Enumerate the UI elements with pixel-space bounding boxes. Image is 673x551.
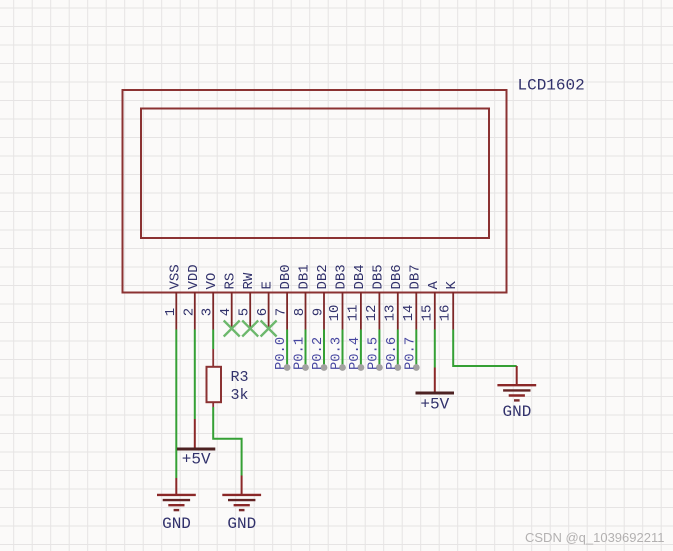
LCD1602 display window inner rectangle	[141, 109, 489, 239]
svg-text:+5V: +5V	[182, 451, 211, 469]
wire DB1 pin8	[305, 330, 307, 368]
pin 8 DB1 stub	[305, 292, 307, 330]
node dot P0.6	[394, 364, 401, 371]
ground symbol (VSS)	[157, 495, 196, 510]
svg-text:CSDN @q_1039692211: CSDN @q_1039692211	[525, 530, 664, 545]
resistor R3 body	[207, 367, 222, 402]
svg-text:DB6: DB6	[389, 264, 405, 289]
wire K pin16 to GND	[453, 330, 517, 367]
LCD1602 component body outer rectangle	[123, 90, 507, 293]
svg-text:P0.6: P0.6	[385, 337, 400, 370]
no-connect X on pin 6	[261, 321, 277, 337]
svg-text:9: 9	[311, 308, 327, 316]
svg-text:3: 3	[200, 308, 216, 316]
pin 2 VDD stub	[194, 292, 196, 330]
svg-text:15: 15	[419, 305, 435, 322]
no-connect X on pin 4	[224, 321, 240, 337]
svg-text:4: 4	[218, 308, 234, 316]
svg-text:LCD1602: LCD1602	[518, 77, 585, 95]
no-connect X on pin 5	[242, 321, 258, 337]
svg-text:P0.5: P0.5	[366, 337, 381, 370]
pin 7 DB0 stub	[286, 292, 288, 330]
pin 15 A stub	[434, 292, 436, 330]
pin 14 DB7 stub	[415, 292, 417, 330]
svg-text:P0.4: P0.4	[348, 337, 363, 370]
node dot P0.1	[302, 364, 309, 371]
wire A pin15 down	[434, 330, 436, 368]
svg-text:DB4: DB4	[352, 264, 368, 289]
svg-text:GND: GND	[502, 403, 531, 421]
resistor R3 bottom lead	[212, 402, 214, 407]
svg-text:E: E	[260, 281, 276, 289]
svg-text:RS: RS	[223, 273, 239, 290]
wire DB0 pin7	[286, 330, 288, 368]
svg-text:VDD: VDD	[186, 264, 202, 289]
svg-text:VSS: VSS	[167, 264, 183, 289]
svg-text:P0.2: P0.2	[311, 337, 326, 370]
svg-text:DB0: DB0	[278, 264, 294, 289]
resistor R3 top lead	[212, 349, 214, 367]
pin 3 VO stub	[212, 292, 214, 330]
power +5V bar (pin15)	[416, 392, 455, 395]
svg-text:DB5: DB5	[370, 264, 386, 289]
svg-text:5: 5	[237, 308, 253, 316]
wire VO pin3 to resistor	[212, 330, 214, 350]
svg-text:8: 8	[292, 308, 308, 316]
svg-text:A: A	[426, 281, 442, 290]
pin 10 DB3 stub	[342, 292, 344, 330]
svg-text:6: 6	[255, 308, 271, 316]
pin 11 DB4 stub	[360, 292, 362, 330]
node dot P0.5	[376, 364, 383, 371]
svg-text:+5V: +5V	[420, 396, 449, 414]
node dot P0.2	[321, 364, 328, 371]
svg-text:P0.7: P0.7	[403, 337, 418, 370]
pin 4 RS stub	[231, 292, 233, 330]
pin 12 DB5 stub	[378, 292, 380, 330]
svg-text:VO: VO	[204, 273, 220, 290]
svg-text:DB2: DB2	[315, 264, 331, 289]
pin 13 DB6 stub	[397, 292, 399, 330]
wire DB7 pin14	[415, 330, 417, 368]
svg-text:R3: R3	[231, 369, 249, 386]
svg-text:RW: RW	[241, 272, 257, 289]
svg-text:11: 11	[345, 305, 361, 322]
pin 6 E stub	[268, 292, 270, 330]
svg-text:1: 1	[163, 308, 179, 316]
wire DB2 pin9	[323, 330, 325, 368]
node dot P0.7	[413, 364, 420, 371]
node dot P0.0	[284, 364, 291, 371]
svg-text:P0.1: P0.1	[293, 337, 308, 370]
svg-text:14: 14	[401, 305, 417, 322]
power +5V bar (VDD)	[177, 448, 215, 451]
ground lead (VSS)	[175, 478, 177, 494]
svg-text:GND: GND	[162, 515, 191, 533]
pin 9 DB2 stub	[323, 292, 325, 330]
svg-text:12: 12	[364, 305, 380, 322]
node dot P0.3	[339, 364, 346, 371]
node dot P0.4	[358, 364, 365, 371]
ground lead (R3 net)	[241, 476, 243, 495]
svg-text:DB1: DB1	[297, 264, 313, 289]
wire resistor bottom to right	[213, 407, 241, 476]
wire VSS pin1 down	[175, 330, 177, 479]
svg-text:7: 7	[274, 308, 290, 316]
svg-text:3k: 3k	[231, 387, 249, 404]
wire VDD pin2 down	[194, 330, 196, 420]
pin 16 K stub	[452, 292, 454, 330]
svg-text:16: 16	[438, 305, 454, 322]
power +5V lead (pin15)	[434, 368, 436, 393]
svg-text:DB3: DB3	[334, 264, 350, 289]
svg-text:2: 2	[181, 308, 197, 316]
pin 5 RW stub	[249, 292, 251, 330]
power +5V lead (VDD)	[194, 419, 196, 448]
svg-text:GND: GND	[227, 515, 256, 533]
svg-text:10: 10	[327, 305, 343, 322]
svg-text:P0.3: P0.3	[330, 337, 345, 370]
pin 1 VSS stub	[175, 292, 177, 330]
wire DB6 pin13	[397, 330, 399, 368]
ground symbol (R3 net)	[222, 495, 261, 510]
svg-text:P0.0: P0.0	[274, 337, 289, 370]
ground symbol (pin16)	[497, 385, 536, 400]
svg-text:13: 13	[382, 305, 398, 322]
wire DB5 pin12	[378, 330, 380, 368]
svg-text:K: K	[444, 281, 460, 290]
wire DB3 pin10	[342, 330, 344, 368]
wire DB4 pin11	[360, 330, 362, 368]
ground lead (pin16)	[516, 366, 518, 385]
svg-text:DB7: DB7	[407, 264, 423, 289]
